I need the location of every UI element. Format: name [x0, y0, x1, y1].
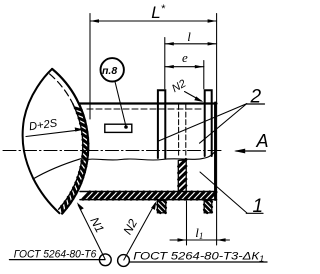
svg-text:A: A: [256, 131, 269, 151]
svg-text:ГОСТ 5264-80-Т3-ΔК1: ГОСТ 5264-80-Т3-ΔК1: [133, 251, 264, 264]
wire: break wavy line: [81, 153, 214, 161]
flange 2 left ring upper half: [158, 90, 165, 158]
dim e extension right: [203, 61, 205, 89]
pipe 1 hidden inner line: [87, 108, 204, 110]
bell left outline: [23, 69, 60, 213]
dim line l1 arrows outside: [170, 239, 230, 241]
pipe 1 bottom wall section band: [80, 191, 217, 193]
svg-text:п.8: п.8: [102, 65, 117, 77]
svg-text:l: l: [187, 29, 191, 44]
label 2 leaders: [159, 104, 247, 144]
svg-text:ГОСТ 5264-80-Т6: ГОСТ 5264-80-Т6: [14, 248, 97, 260]
inner wall section bar: [178, 160, 186, 191]
bell outer arc: [52, 69, 88, 214]
callout circle p.8: [101, 58, 124, 81]
flange 2 left ring section foot: [157, 201, 165, 213]
weld circle N1: [99, 254, 111, 266]
weld circle N2: [118, 255, 130, 267]
dim line l: [165, 43, 217, 45]
dim line e: [165, 66, 204, 68]
dim l1 extension left: [186, 201, 188, 245]
bell fold line: [33, 159, 81, 179]
view A arrow: [236, 150, 266, 152]
label 1 leader: [200, 172, 247, 213]
dim line L*: [90, 20, 217, 22]
centerline: [3, 150, 222, 152]
D+2S arrow: [26, 130, 81, 137]
weld N1 leader: [78, 205, 105, 259]
flange 2 right ring section foot: [204, 201, 212, 213]
svg-text:1: 1: [253, 196, 264, 217]
flange 2 right ring upper half: [205, 90, 212, 156]
dim l extension left: [164, 38, 166, 89]
svg-text:2: 2: [250, 87, 262, 108]
svg-text:e: e: [182, 50, 188, 65]
weld N2 lower leader: [124, 204, 155, 261]
extension line at pipe end: [216, 14, 218, 246]
weld N2 upper leader: [185, 92, 202, 102]
pipe 1 top edge: [79, 102, 217, 104]
marking plate: [105, 124, 132, 132]
bell inner arc solid lower: [59, 104, 83, 210]
pipe 1 right end: [214, 103, 216, 200]
hidden lines of inner wall: [178, 105, 180, 158]
leader from p.8: [115, 82, 126, 127]
dim L* extension left: [89, 14, 91, 120]
bell inner arc dashed upper: [50, 74, 73, 104]
bell band hatch: [62, 108, 88, 212]
